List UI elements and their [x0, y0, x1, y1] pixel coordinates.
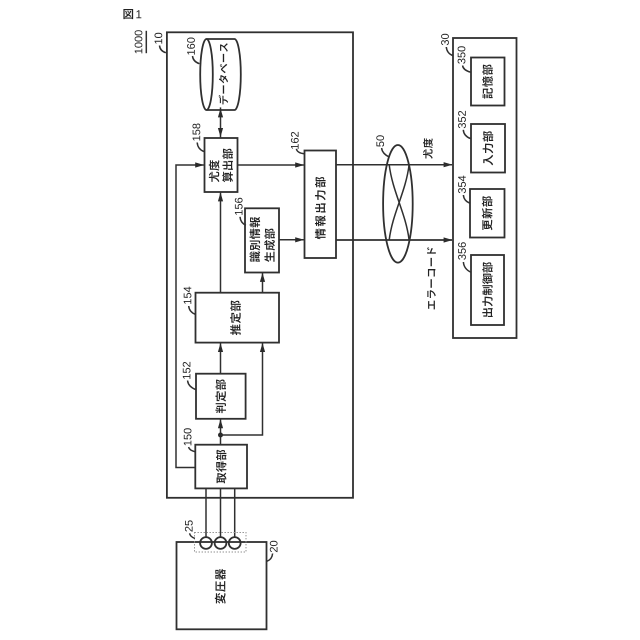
label 156 [235, 198, 243, 215]
leader 356 [463, 262, 471, 272]
leader 30 [446, 47, 453, 56]
text 出力制御部 [482, 262, 493, 317]
box 10: fault determination device outline [167, 32, 353, 498]
wire: 150 to bushing 1 [205, 488, 207, 537]
leader 25 [190, 533, 195, 538]
wire: 158 right to 162 [238, 164, 304, 166]
text 情報出力部 [315, 177, 326, 239]
label 1000 (system reference) [135, 30, 143, 53]
leader 158 [197, 143, 204, 152]
database cylinder 160 データベース [200, 39, 241, 110]
label 152 [183, 362, 191, 379]
label エラーコード (error code) [427, 247, 436, 309]
label 158 [192, 124, 200, 141]
text 尤度算出部 [209, 149, 233, 183]
wire: 150 to bushing 3 [234, 488, 236, 537]
wire: 156 right to 162 [279, 239, 304, 241]
leader 154 [189, 306, 196, 315]
wire: 154 top to 158 bottom [220, 193, 222, 293]
text 変圧器 [215, 569, 226, 604]
wire: 162 to 30 (エラーコード line) [336, 239, 452, 241]
text 取得部 [216, 450, 226, 484]
label 352 [458, 111, 466, 128]
wire: 162 to 30 (尤度line) [336, 164, 452, 166]
text 判定部 [215, 379, 226, 413]
bushing terminal 1 [200, 537, 212, 549]
text 更新部 [482, 196, 493, 230]
label 162 [291, 132, 299, 149]
box 20 変圧器 (transformer) [177, 542, 267, 629]
box 162 情報出力部 (information output) [305, 151, 337, 259]
leader 352 [463, 130, 470, 139]
wire: junction branch to 154 bottom [221, 343, 263, 435]
wire: 154 top to 156 bottom [262, 273, 264, 293]
network symbol 50 (ellipse with crossing lines) [336, 145, 452, 263]
text 入力部 [483, 131, 494, 165]
leader 20 [267, 554, 273, 562]
leader 156 [240, 217, 246, 226]
leader 50 [382, 148, 390, 157]
label 350 [458, 46, 466, 64]
box 156 識別情報生成部 (ID info generator) [245, 208, 279, 272]
box 352 入力部 (input) [471, 124, 505, 173]
wire: database to likelihood calc (double arrow) [220, 107, 222, 138]
bushing terminal 3 [229, 537, 241, 549]
label 尤度 (likelihood) [423, 138, 433, 159]
leader 354 [463, 195, 470, 203]
leader 160 [193, 56, 200, 64]
label 160 [187, 38, 195, 55]
text 推定部 [230, 301, 241, 336]
box 152 判定部 (decision) [196, 374, 246, 419]
underline of 1000 [145, 31, 147, 53]
label 10 [154, 33, 162, 44]
wire: 150 left around to 158 (L route) [176, 165, 204, 468]
box 30: external device outline [453, 38, 517, 338]
label 354 [458, 176, 466, 194]
label 150 [184, 428, 192, 445]
label 20 [270, 541, 278, 552]
leader 350 [463, 66, 471, 73]
box 150 取得部 (acquisition) [195, 445, 247, 489]
box 356 出力制御部 (output controller) [471, 255, 504, 325]
box 158 尤度算出部 (likelihood calculator) [205, 138, 238, 192]
box 154 推定部 (estimator) [196, 293, 280, 343]
leader 162 [296, 149, 304, 154]
label 25 [185, 520, 193, 531]
box 350 記憶部 (storage) [471, 58, 505, 106]
box 354 更新部 (updater) [470, 189, 505, 238]
wire: 150 to bushing 2 [220, 488, 222, 537]
label 356 [458, 242, 466, 259]
text 記憶部 [482, 64, 493, 98]
label 154 [184, 287, 192, 304]
leader 10 [160, 46, 166, 53]
leader 150 [189, 447, 196, 452]
dashed box 25 (measurement points) [195, 533, 247, 553]
text 識別情報生成部 [250, 217, 275, 262]
junction node [218, 433, 223, 438]
text データベース [219, 43, 229, 104]
wire: 150 top to 152 bottom [220, 419, 222, 444]
figure caption 図1 [123, 9, 141, 19]
wire: 152 top to 154 bottom [220, 343, 222, 374]
leader 152 [188, 381, 196, 390]
bushing terminal 2 [215, 537, 227, 549]
label 50 [376, 135, 384, 146]
label 30 [441, 34, 449, 45]
